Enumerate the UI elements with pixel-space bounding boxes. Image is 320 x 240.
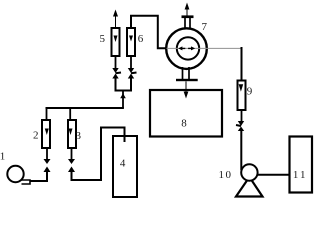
float of rotameter 2 bbox=[45, 129, 49, 136]
label 4 bbox=[120, 158, 126, 170]
pump 10 casing circle bbox=[241, 164, 257, 180]
svg-text:9: 9 bbox=[247, 86, 253, 98]
rotameter 3 bbox=[68, 120, 76, 148]
svg-text:7: 7 bbox=[202, 21, 208, 33]
rotameter 2 bbox=[42, 120, 50, 148]
svg-text:6: 6 bbox=[138, 33, 144, 45]
dashed double arrow inside reactor 7 bbox=[167, 46, 243, 50]
pipe pump 10 to tank 11 bbox=[258, 174, 290, 176]
vent arrow above reactor 7 bbox=[185, 3, 190, 16]
manifold pipe to rotameters 2 and 3 bbox=[46, 108, 124, 120]
valve under rotameter 2 bbox=[44, 148, 51, 172]
svg-text:2: 2 bbox=[33, 130, 39, 142]
valve under rotameter 9 bbox=[236, 121, 244, 131]
svg-text:5: 5 bbox=[100, 33, 106, 45]
label 10 bbox=[219, 169, 233, 181]
tank 4 bbox=[113, 136, 137, 197]
junction pipe under rotameters 5,6 bbox=[116, 78, 132, 91]
svg-text:1: 1 bbox=[0, 151, 5, 163]
label 9 bbox=[247, 86, 253, 98]
label 1 bbox=[0, 151, 5, 163]
svg-text:3: 3 bbox=[76, 130, 82, 142]
valve under rotameter 5 bbox=[112, 56, 121, 79]
blower 1 circle bbox=[7, 166, 23, 182]
svg-text:8: 8 bbox=[181, 118, 187, 130]
reactor 7 top nozzle with flange bbox=[182, 15, 194, 29]
pipe rotameter 6 to reactor 7 bbox=[131, 16, 166, 49]
label 2 bbox=[33, 130, 39, 142]
pump 10 impeller triangle bbox=[236, 177, 263, 197]
float of rotameter 9 bbox=[239, 84, 244, 91]
pipe end inside tank 4 bbox=[124, 136, 126, 142]
svg-text:11: 11 bbox=[293, 169, 308, 181]
svg-text:10: 10 bbox=[219, 169, 233, 181]
reactor 7 bottom nozzle with flange bbox=[176, 67, 198, 81]
blower 1 outlet box bbox=[22, 180, 31, 184]
pipe blower to rotameter 2 bbox=[30, 172, 48, 181]
tank 11 bbox=[290, 137, 313, 193]
pipe down to rotameter 9 bbox=[241, 47, 243, 81]
chamber 8 bbox=[150, 90, 222, 137]
label 5 bbox=[100, 33, 106, 45]
riser with up arrow to rotameters 5,6 bbox=[120, 91, 126, 109]
pipe rotameter 9 to valve bbox=[241, 110, 243, 122]
label 3 bbox=[76, 130, 82, 142]
rotameter 5 bbox=[112, 28, 120, 56]
rotameter 6 bbox=[127, 28, 135, 56]
reactor 7 outer shell bbox=[166, 28, 207, 69]
label 11 bbox=[293, 169, 308, 181]
rotameter 9 bbox=[238, 81, 246, 111]
valve under rotameter 3 bbox=[68, 148, 75, 172]
svg-text:4: 4 bbox=[120, 158, 126, 170]
float of rotameter 5 bbox=[114, 36, 118, 43]
reactor 7 inner tube bbox=[177, 37, 199, 59]
float of rotameter 6 bbox=[129, 36, 133, 42]
arrow from reactor 7 into chamber 8 bbox=[184, 81, 189, 98]
float of rotameter 3 bbox=[69, 129, 73, 136]
label 7 bbox=[202, 21, 208, 33]
pipe valve to pump 10 bbox=[240, 130, 242, 170]
label 8 bbox=[181, 118, 187, 130]
valve under rotameter 6 bbox=[128, 56, 137, 79]
pipe rotameter 3 to tank 4 bbox=[72, 128, 125, 181]
vent arrow above rotameter 5 bbox=[113, 10, 118, 29]
label 6 bbox=[138, 33, 144, 45]
